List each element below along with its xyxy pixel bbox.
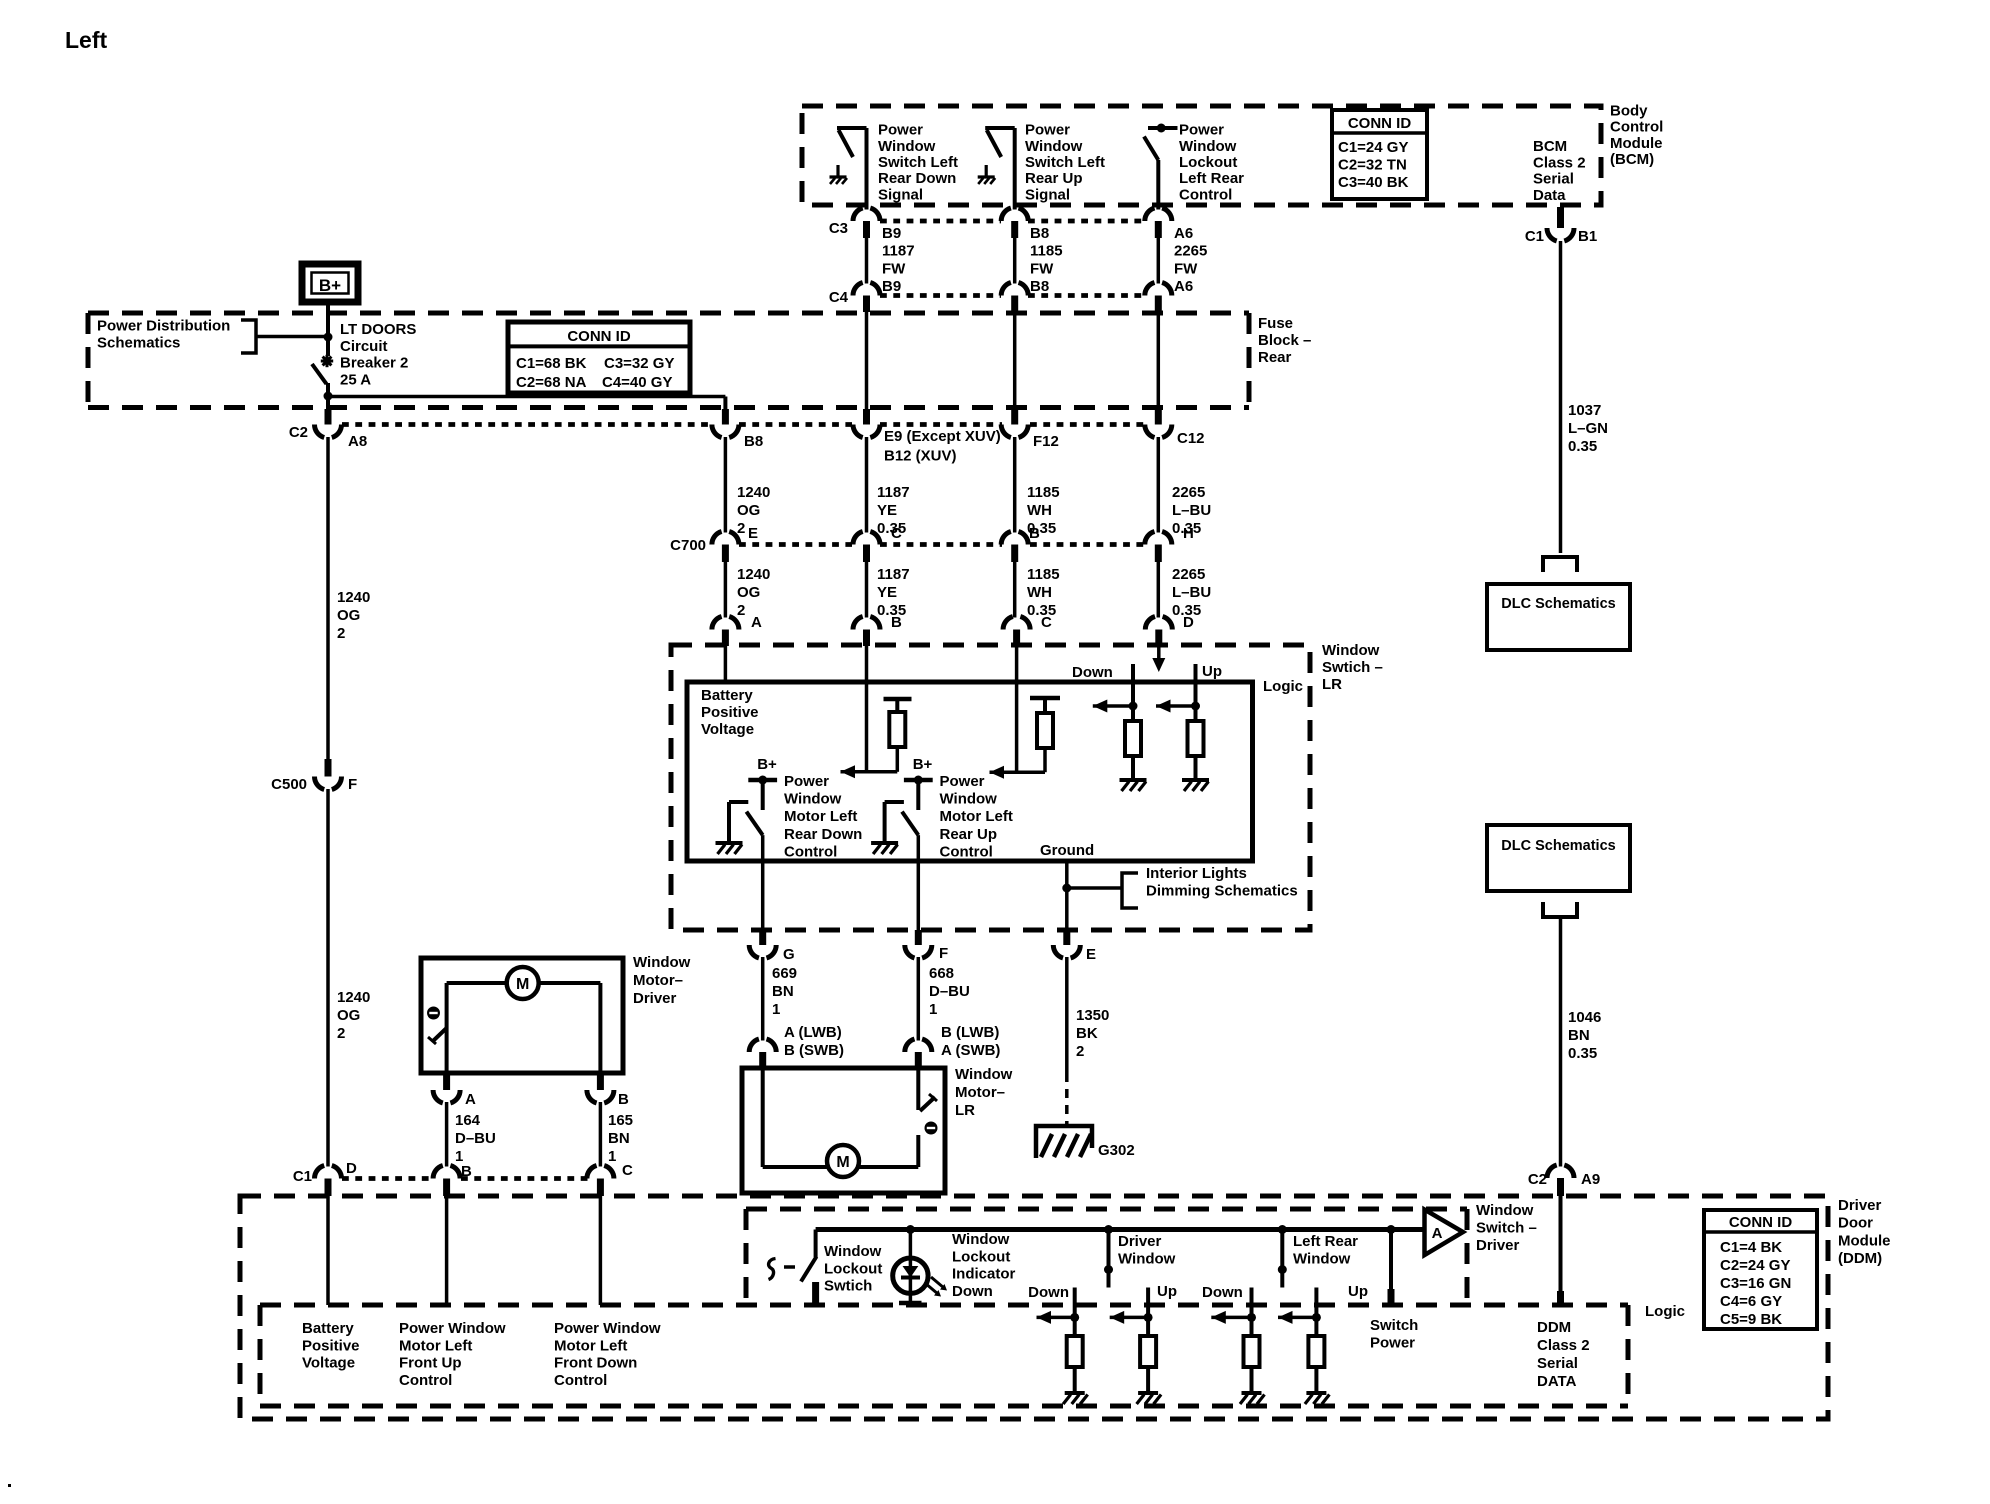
svg-text:CONN ID: CONN ID [567,328,631,345]
svg-text:2265: 2265 [1172,566,1205,583]
svg-text:1240: 1240 [337,589,370,606]
svg-text:LR: LR [1322,676,1342,693]
input arrow (rear up) [990,770,1046,774]
svg-text:Voltage: Voltage [302,1355,355,1372]
svg-text:C2=32 TN: C2=32 TN [1338,157,1407,174]
motor M Window Motor-Driver [421,958,623,1073]
svg-text:A (LWB): A (LWB) [784,1024,842,1041]
svg-text:A6: A6 [1174,225,1193,242]
svg-text:Body: Body [1610,102,1648,119]
svg-text:Voltage: Voltage [701,721,754,738]
svg-text:Logic: Logic [1645,1303,1685,1320]
svg-text:C2: C2 [1528,1171,1547,1188]
svg-text:Window: Window [1179,138,1237,155]
pull-up resistor (rear down input) [884,697,912,702]
connector pin B(LWB)/A(SWB) [905,1039,932,1052]
svg-text:L–GN: L–GN [1568,420,1608,437]
svg-text:E: E [1086,946,1096,963]
connector pin F12 (fuse block) [1011,409,1018,425]
svg-text:Motor Left: Motor Left [784,808,857,825]
svg-text:OG: OG [737,502,760,519]
svg-text:Window: Window [878,138,936,155]
connector C700 pin B [1001,532,1028,545]
svg-text:Window: Window [952,1231,1010,1248]
svg-text:164: 164 [455,1112,481,1129]
svg-text:M: M [836,1154,849,1171]
connector pin B8 (fuse block) [722,409,729,425]
svg-text:Motor Left: Motor Left [554,1337,627,1354]
svg-text:Motor Left: Motor Left [399,1337,472,1354]
svg-text:YE: YE [877,584,897,601]
svg-text:Class 2: Class 2 [1537,1337,1590,1354]
wire 1037 L-GN 0.35 [1559,241,1563,553]
svg-text:C12: C12 [1177,430,1205,447]
wire 1350 BK 2 to G302 [1065,957,1069,1073]
connector pin A (motor driver) [443,1073,450,1090]
svg-text:C2: C2 [289,424,308,441]
svg-text:Rear Down: Rear Down [878,170,956,187]
svg-text:Signal: Signal [1025,186,1070,203]
svg-text:Down: Down [1028,1284,1069,1301]
svg-text:1185: 1185 [1027,566,1060,583]
wire B9 fuse block segment [865,312,869,409]
driver output 2: switch contact and ground [885,800,904,804]
module box Window Swtich - LR (dashed) [671,645,1310,930]
svg-text:DDM: DDM [1537,1319,1571,1336]
svg-text:Door: Door [1838,1215,1873,1232]
svg-text:1037: 1037 [1568,402,1601,419]
connector C2 pin A8 [325,409,332,425]
wire 2265 FW (A6-A6) [1157,238,1161,284]
connector pin C12 (fuse block) [1155,409,1162,425]
svg-text:1187: 1187 [877,484,910,501]
wire 1185 WH 0.35 (C700 B to switch C) [1013,562,1017,618]
svg-text:BCM: BCM [1533,138,1567,155]
svg-text:2: 2 [737,602,745,619]
svg-text:C4=40 GY: C4=40 GY [602,374,672,391]
svg-text:B: B [618,1091,629,1108]
svg-text:B: B [1029,525,1040,542]
connector C1 pin B1 (BCM) [1557,207,1564,228]
down sense leg (left rear window) [1250,1288,1254,1337]
svg-text:1046: 1046 [1568,1009,1601,1026]
svg-text:D: D [1183,614,1194,631]
speck [8,1484,11,1487]
svg-text:B+: B+ [913,756,933,773]
svg-text:FW: FW [1030,260,1054,277]
node driver window [1104,1225,1113,1234]
wire switch power [1387,1225,1396,1234]
module box Body Control Module (BCM) [802,106,1601,205]
reference box DLC Schematics (upper) [1487,584,1630,650]
svg-text:Indicator: Indicator [952,1266,1016,1283]
svg-text:C4: C4 [829,289,849,306]
svg-text:Rear Up: Rear Up [940,826,998,843]
svg-text:B8: B8 [744,433,763,450]
svg-text:E9 (Except XUV): E9 (Except XUV) [884,428,1001,445]
wire 1240 OG 2 (A8 to C500) [326,437,330,759]
svg-text:OG: OG [737,584,760,601]
svg-text:Logic: Logic [1263,678,1303,695]
connector C500 pin F [325,759,332,777]
svg-text:BN: BN [608,1130,630,1147]
pull-up resistor (rear up input) [1030,696,1060,701]
svg-text:Power: Power [1025,122,1070,139]
connector C1 pin C [587,1166,614,1179]
svg-text:Control: Control [554,1372,607,1389]
svg-text:LT DOORS: LT DOORS [340,321,416,338]
svg-text:WH: WH [1027,584,1052,601]
connector pin B (window switch LR) [853,617,880,630]
svg-text:Window: Window [1118,1251,1176,1268]
LED window lockout indicator [906,1225,915,1234]
bracket (power distribution reference) [241,320,256,353]
CONN ID table (BCM) [1332,110,1427,199]
connector pin G (switch LR output) [759,930,766,945]
wire front down control into DDM [599,1196,603,1305]
svg-text:Switch Left: Switch Left [878,154,958,171]
svg-text:B9: B9 [882,278,901,295]
svg-text:CONN ID: CONN ID [1348,115,1412,132]
connector pin C (window switch LR) [1003,617,1030,630]
connector C2 pin A9 (DDM) [1547,1165,1574,1178]
svg-text:Fuse: Fuse [1258,315,1293,332]
svg-text:0.35: 0.35 [1568,438,1597,455]
wire ground output E [1065,861,1069,930]
svg-text:Ground: Ground [1040,842,1094,859]
svg-text:Lockout: Lockout [952,1248,1010,1265]
svg-text:668: 668 [929,965,954,982]
connector C4 pin B8 [1001,283,1028,296]
connector pin A (window switch LR) [712,617,739,630]
wire 1240 OG 2 (B8 to C700 E) [724,437,728,533]
svg-text:Down: Down [1202,1284,1243,1301]
svg-text:Driver: Driver [1118,1233,1162,1250]
svg-text:Positive: Positive [302,1337,360,1354]
wire C input rear up signal [1015,646,1019,772]
wire 164 D-BU 1 [445,1102,449,1167]
wire A6 fuse block segment [1157,312,1161,409]
svg-text:BK: BK [1076,1025,1098,1042]
ground G302 [1036,1126,1092,1158]
svg-text:C1: C1 [293,1168,312,1185]
svg-text:Driver: Driver [633,990,677,1007]
svg-text:C: C [1041,614,1052,631]
svg-text:Front Up: Front Up [399,1355,461,1372]
svg-text:1187: 1187 [877,566,910,583]
svg-text:Serial: Serial [1533,171,1574,188]
svg-text:25 A: 25 A [340,371,371,388]
svg-text:2: 2 [737,520,745,537]
svg-text:Control: Control [1179,186,1232,203]
switch S2 Power Window Switch Left Rear Up Signal [1013,128,1017,210]
svg-text:L–BU: L–BU [1172,584,1211,601]
svg-text:B (SWB): B (SWB) [784,1042,844,1059]
svg-text:2265: 2265 [1174,243,1207,260]
off-page connector from DLC (bottom) [1543,902,1577,917]
svg-text:1350: 1350 [1076,1007,1109,1024]
connector C4 pin B9 [853,283,880,296]
svg-text:Switch: Switch [1370,1317,1418,1334]
svg-text:D–BU: D–BU [929,983,970,1000]
svg-text:DLC Schematics: DLC Schematics [1501,838,1615,854]
svg-text:1: 1 [608,1148,616,1165]
svg-text:C1=68 BK: C1=68 BK [516,355,587,372]
connector row C1 (dotted) [342,1176,433,1181]
svg-text:LR: LR [955,1102,975,1119]
svg-text:Up: Up [1157,1283,1177,1300]
svg-text:Control: Control [1610,119,1663,136]
connector row C700 (dotted) [739,542,852,547]
svg-text:B12 (XUV): B12 (XUV) [884,448,957,465]
svg-text:Down: Down [952,1283,993,1300]
svg-text:BN: BN [1568,1027,1590,1044]
svg-text:Rear Up: Rear Up [1025,170,1083,187]
svg-text:0.35: 0.35 [1568,1045,1597,1062]
svg-text:Class 2: Class 2 [1533,154,1586,171]
circuit breaker CB2 LT DOORS 25A [326,302,330,356]
svg-text:1185: 1185 [1027,484,1060,501]
svg-text:B+: B+ [757,756,777,773]
wire front up control into DDM [445,1196,449,1305]
svg-text:Rear: Rear [1258,349,1292,366]
wire 1185 FW (B8-B8) [1013,238,1017,284]
svg-text:OG: OG [337,1007,360,1024]
wire B input rear down signal [865,646,869,772]
svg-text:C1=24 GY: C1=24 GY [1338,139,1408,156]
svg-text:Power: Power [878,122,923,139]
svg-text:Power: Power [1370,1335,1415,1352]
svg-text:1240: 1240 [337,989,370,1006]
switch S1 Power Window Switch Left Rear Down Signal [865,128,869,210]
svg-text:Data: Data [1533,187,1566,204]
svg-text:B (LWB): B (LWB) [941,1024,999,1041]
svg-text:1: 1 [772,1001,780,1018]
svg-text:B1: B1 [1578,228,1597,245]
svg-text:A: A [1432,1225,1443,1242]
svg-text:2: 2 [1076,1043,1084,1060]
svg-text:M: M [516,976,529,993]
svg-text:DATA: DATA [1537,1373,1577,1390]
svg-text:C2=24 GY: C2=24 GY [1720,1257,1790,1274]
svg-text:Battery: Battery [302,1320,354,1337]
svg-text:Power: Power [940,773,985,790]
svg-text:Block –: Block – [1258,332,1311,349]
svg-text:C: C [622,1162,633,1179]
svg-text:C2=68 NA: C2=68 NA [516,374,587,391]
wire breaker output to fuse B8 [328,395,725,399]
svg-text:Control: Control [784,843,837,860]
svg-text:Motor–: Motor– [955,1084,1005,1101]
svg-text:Front Down: Front Down [554,1355,637,1372]
svg-text:Power: Power [1179,122,1224,139]
connector C4 pin A6 [1145,283,1172,296]
connector pin F (switch LR output) [915,930,922,945]
svg-text:C4=6 GY: C4=6 GY [1720,1293,1782,1310]
svg-text:H: H [1183,525,1194,542]
svg-text:D–BU: D–BU [455,1130,496,1147]
wire 1187 YE 0.35 (E9 to C700 C) [865,437,869,533]
wire 1187 YE 0.35 (C700 C to switch B) [865,562,869,618]
svg-text:Window: Window [940,791,998,808]
svg-text:1240: 1240 [737,484,770,501]
svg-text:Down: Down [1072,664,1113,681]
wire output F (rear up control) [917,835,921,930]
svg-text:Motor–: Motor– [633,972,683,989]
logic box (window switch LR) [687,682,1253,861]
svg-text:Window: Window [633,954,691,971]
svg-text:Power Window: Power Window [399,1320,506,1337]
svg-text:Dimming Schematics: Dimming Schematics [1146,883,1298,900]
svg-text:1185: 1185 [1030,243,1063,260]
svg-text:C500: C500 [271,776,307,793]
wire 1240 OG 2 (C700 E to switch A) [724,562,728,618]
svg-text:Up: Up [1348,1283,1368,1300]
svg-text:Power Distribution: Power Distribution [97,318,230,335]
svg-text:2: 2 [337,625,345,642]
battery feed B+ terminal [302,264,358,302]
svg-text:B8: B8 [1030,225,1049,242]
bracket Interior Lights Dimming Schematics [1122,873,1138,908]
svg-text:Swtich –: Swtich – [1322,659,1383,676]
connector row C2 (dotted) [342,422,711,427]
svg-text:1187: 1187 [882,243,915,260]
wire 1046 BN 0.35 [1559,917,1563,1167]
svg-text:B: B [891,614,902,631]
svg-text:E: E [748,525,758,542]
svg-text:Rear Down: Rear Down [784,826,862,843]
wire 668 D-BU 1 [917,957,921,1041]
up sense leg (driver window) [1146,1288,1150,1337]
connector C1 pin B [433,1166,460,1179]
svg-text:FW: FW [1174,260,1198,277]
svg-text:C3=32 GY: C3=32 GY [604,355,674,372]
svg-text:1240: 1240 [737,566,770,583]
svg-text:(DDM): (DDM) [1838,1250,1882,1267]
svg-text:Motor Left: Motor Left [940,808,1013,825]
logic section box (DDM) dashed [260,1303,1628,1308]
connector row C4 (dotted) [880,293,1001,298]
CONN ID table (fuse block) [508,322,690,393]
svg-text:A8: A8 [348,433,367,450]
ground (switch S1) [836,165,839,177]
wire DDM class 2 serial data [1559,1196,1563,1305]
connector pin D (window switch LR) [1145,617,1172,630]
driver output 1: switch contact and ground [729,800,748,804]
motor M Window Motor-LR [742,1068,945,1193]
node left rear window [1278,1225,1287,1234]
connector row C3 (dotted) [880,219,1001,224]
svg-text:B8: B8 [1030,278,1049,295]
off-page connector to DLC (top) [1543,557,1577,572]
svg-text:Power Window: Power Window [554,1320,661,1337]
connector pin A(LWB)/B(SWB) [749,1039,776,1052]
wire 2265 L-BU 0.35 (C700 H to switch D) [1157,562,1161,618]
svg-text:B+: B+ [319,276,341,295]
svg-text:Lockout: Lockout [824,1260,882,1277]
connector C3 pin B9 [853,208,880,221]
up sense leg (left rear window) [1314,1288,1318,1337]
svg-text:C3: C3 [829,220,848,237]
svg-text:165: 165 [608,1112,633,1129]
svg-text:Battery: Battery [701,687,753,704]
module box Power Distribution Schematics / Fuse Block Rear (dashed strip) [88,311,1249,316]
svg-text:Serial: Serial [1537,1355,1578,1372]
wire battery positive into DDM [326,1196,330,1305]
window lockout switch [814,1230,818,1258]
svg-text:Control: Control [399,1372,452,1389]
CONN ID table (DDM) [1704,1210,1817,1329]
wire 165 BN 1 [599,1102,603,1167]
svg-text:Switch –: Switch – [1476,1220,1537,1237]
svg-text:C3=40 BK: C3=40 BK [1338,174,1409,191]
wire output G (rear down control) [761,835,765,930]
svg-text:YE: YE [877,502,897,519]
svg-text:Window: Window [955,1066,1013,1083]
svg-text:2: 2 [337,1025,345,1042]
svg-text:CONN ID: CONN ID [1729,1214,1793,1231]
svg-text:Schematics: Schematics [97,335,180,352]
svg-text:Left Rear: Left Rear [1179,170,1244,187]
svg-text:Up: Up [1202,663,1222,680]
svg-text:2265: 2265 [1172,484,1205,501]
wire 669 BN 1 [761,957,765,1041]
svg-text:Control: Control [940,843,993,860]
svg-text:Window: Window [1025,138,1083,155]
connector C3 pin A6 [1145,208,1172,221]
svg-text:OG: OG [337,607,360,624]
svg-text:Swtich: Swtich [824,1278,872,1295]
wire 1240 OG 2 (C500 to DDM C1) [326,789,330,1167]
svg-text:A: A [465,1091,476,1108]
svg-text:C: C [891,525,902,542]
connector pin E (switch LR ground) [1063,930,1070,945]
svg-text:DLC Schematics: DLC Schematics [1501,596,1615,612]
svg-text:F: F [348,776,357,793]
ground (switch S2) [985,165,988,177]
svg-text:Module: Module [1838,1232,1891,1249]
svg-text:669: 669 [772,965,797,982]
wire 1187 FW (B9-B9) [865,238,869,284]
svg-text:Window: Window [824,1243,882,1260]
svg-text:WH: WH [1027,502,1052,519]
down sense leg with resistor and ground [1131,664,1135,721]
svg-text:A: A [751,614,762,631]
svg-text:D: D [346,1160,357,1177]
svg-text:A (SWB): A (SWB) [941,1042,1000,1059]
svg-text:B: B [461,1163,472,1180]
svg-text:C5=9 BK: C5=9 BK [1720,1311,1782,1328]
module box Driver Door Module (DDM) dashed [240,1196,1828,1419]
svg-text:Module: Module [1610,135,1663,152]
svg-text:Lockout: Lockout [1179,154,1237,171]
connector C700 pin C [853,532,880,545]
svg-text:F12: F12 [1033,433,1059,450]
svg-text:(BCM): (BCM) [1610,151,1654,168]
svg-text:Window: Window [784,791,842,808]
svg-text:G: G [783,946,795,963]
input arrow (rear down) [841,770,898,774]
svg-text:Left Rear: Left Rear [1293,1233,1358,1250]
svg-text:Window: Window [1476,1202,1534,1219]
connector C1 pin D [314,1166,341,1179]
svg-text:A6: A6 [1174,278,1193,295]
switch S3 Power Window Lockout Left Rear Control [1148,126,1178,130]
up sense leg with resistor and ground [1194,664,1198,721]
wire B8 fuse block segment [1013,312,1017,409]
svg-text:Breaker 2: Breaker 2 [340,355,408,372]
svg-text:C700: C700 [670,537,706,554]
